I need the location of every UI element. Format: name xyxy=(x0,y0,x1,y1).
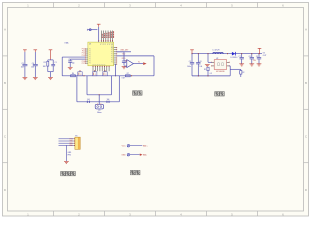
svg-text:P17: P17 xyxy=(82,63,85,65)
svg-text:VD: VD xyxy=(111,47,113,49)
svg-text:U1: U1 xyxy=(89,44,91,46)
svg-text:BAT-: BAT- xyxy=(143,154,147,157)
svg-text:R7: R7 xyxy=(127,73,129,75)
svg-text:MC34063E: MC34063E xyxy=(216,71,225,73)
svg-text:R1: R1 xyxy=(44,62,46,64)
svg-text:104: 104 xyxy=(199,66,202,68)
svg-text:P1: P1 xyxy=(89,55,91,57)
svg-text:U2: U2 xyxy=(216,58,218,60)
svg-text:OUT: OUT xyxy=(122,77,126,79)
svg-text:Vo: Vo xyxy=(138,62,140,64)
svg-text:A: A xyxy=(305,28,307,32)
svg-text:P13: P13 xyxy=(82,55,85,57)
svg-text:22p: 22p xyxy=(72,63,75,65)
svg-text:P3: P3 xyxy=(75,136,77,138)
svg-text:P1: P1 xyxy=(89,57,91,59)
svg-text:C7: C7 xyxy=(239,56,241,58)
svg-text:P0: P0 xyxy=(103,43,105,45)
svg-text:C1: C1 xyxy=(55,62,57,64)
svg-text:P1: P1 xyxy=(89,51,91,53)
svg-text:R6: R6 xyxy=(72,73,74,75)
svg-text:104: 104 xyxy=(31,67,34,69)
svg-text:C8: C8 xyxy=(249,56,251,58)
svg-text:P3: P3 xyxy=(111,53,113,55)
svg-text:B: B xyxy=(305,81,307,85)
svg-text:L1 47uH: L1 47uH xyxy=(213,50,220,52)
svg-text:104: 104 xyxy=(87,99,90,101)
svg-text:P0: P0 xyxy=(105,43,107,45)
svg-text:P1: P1 xyxy=(89,63,91,65)
svg-text:VCC: VCC xyxy=(122,146,127,148)
svg-text:C9: C9 xyxy=(256,56,258,58)
svg-text:GND: GND xyxy=(121,155,126,157)
svg-text:C3: C3 xyxy=(21,63,23,65)
svg-text:P0: P0 xyxy=(107,43,109,45)
svg-text:B: B xyxy=(4,81,6,85)
svg-text:104: 104 xyxy=(107,99,110,101)
svg-text:P1: P1 xyxy=(89,61,91,63)
svg-text:P1: P1 xyxy=(89,53,91,55)
svg-text:Motor: Motor xyxy=(97,111,102,114)
svg-text:C4: C4 xyxy=(32,63,34,65)
svg-text:XTAL: XTAL xyxy=(64,42,68,45)
svg-text:P0: P0 xyxy=(110,43,112,45)
svg-text:R2: R2 xyxy=(242,72,244,74)
svg-text:C6: C6 xyxy=(199,61,201,63)
svg-text:P3: P3 xyxy=(111,62,113,64)
svg-text:P3: P3 xyxy=(111,60,113,62)
svg-text:USB_DET: USB_DET xyxy=(120,50,129,52)
svg-text:P1: P1 xyxy=(89,49,91,51)
svg-text:P0: P0 xyxy=(101,43,103,45)
svg-text:P1: P1 xyxy=(89,59,91,61)
svg-text:P3: P3 xyxy=(111,56,113,58)
svg-text:P0: P0 xyxy=(112,43,114,45)
svg-text:P3: P3 xyxy=(111,49,113,51)
svg-text:D1 SS14: D1 SS14 xyxy=(231,57,238,59)
svg-text:R5: R5 xyxy=(204,69,206,71)
svg-text:Y1: Y1 xyxy=(68,59,70,61)
svg-text:0.3: 0.3 xyxy=(210,73,212,75)
svg-text:P3: P3 xyxy=(111,58,113,60)
svg-text:A: A xyxy=(4,28,6,32)
svg-text:P3: P3 xyxy=(111,51,113,53)
svg-text:104: 104 xyxy=(21,67,24,69)
svg-text:100u: 100u xyxy=(187,66,191,68)
svg-text:C5: C5 xyxy=(189,61,191,63)
svg-text:OUT: OUT xyxy=(263,55,267,57)
